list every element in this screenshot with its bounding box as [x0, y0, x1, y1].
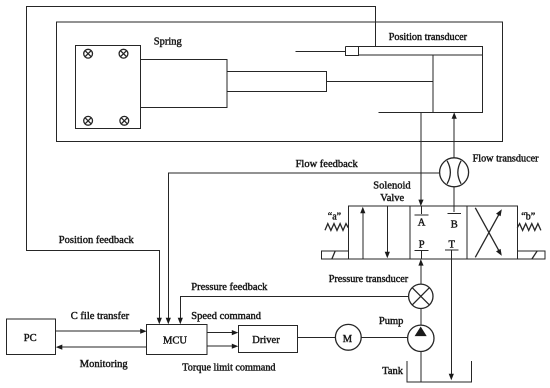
piston rod thin	[326, 80, 433, 82]
pressure transducer	[409, 284, 433, 308]
svg-text:C file transfer: C file transfer	[71, 311, 130, 322]
svg-text:“b”: “b”	[521, 211, 535, 222]
left section down arrow	[386, 206, 388, 254]
port B stub	[447, 206, 461, 213]
flow feedback wire	[168, 173, 439, 321]
svg-text:Flow transducer: Flow transducer	[473, 153, 540, 164]
driver to motor line	[297, 337, 335, 339]
position transducer rod	[345, 46, 482, 55]
spring b	[517, 224, 541, 231]
screw bottom-left	[84, 116, 93, 125]
port P stub	[415, 251, 429, 260]
screw top-right	[119, 49, 128, 58]
piston rod thick	[227, 71, 326, 91]
svg-text:PC: PC	[24, 333, 37, 344]
port T stub	[445, 250, 459, 259]
solenoid valve body middle section	[410, 206, 467, 259]
svg-text:Pressure feedback: Pressure feedback	[191, 282, 268, 293]
left solenoid	[321, 251, 348, 259]
position transducer lead	[295, 50, 345, 52]
flow transducer	[440, 158, 469, 187]
svg-text:Solenoid: Solenoid	[373, 180, 411, 191]
torque limit command arrow	[207, 345, 234, 347]
transducer to pump line	[420, 309, 422, 326]
svg-text:Driver: Driver	[252, 335, 280, 346]
spring a	[325, 224, 348, 231]
machine enclosure	[56, 22, 502, 141]
pressure feedback wire	[180, 296, 408, 321]
svg-text:Tank: Tank	[382, 366, 404, 377]
left section up arrow	[362, 211, 364, 259]
motor M	[335, 324, 361, 350]
screw bottom-right	[120, 116, 129, 125]
position transducer head box	[345, 46, 358, 55]
C file transfer arrow	[56, 330, 143, 332]
tank return line	[450, 259, 452, 377]
svg-text:Pressure transducer: Pressure transducer	[329, 274, 409, 285]
svg-text:Torque limit command: Torque limit command	[182, 362, 275, 373]
mounting plate	[75, 45, 140, 128]
svg-text:MCU: MCU	[163, 335, 187, 346]
tank	[407, 361, 471, 382]
P supply line	[420, 262, 422, 284]
svg-text:Flow feedback: Flow feedback	[296, 159, 359, 170]
svg-text:P: P	[419, 240, 425, 251]
svg-text:M: M	[343, 334, 353, 345]
pump	[408, 325, 434, 351]
cylinder bottom guide line	[378, 111, 433, 113]
MCU box	[147, 324, 207, 354]
right section crossed arrow down	[475, 208, 500, 253]
PC box	[7, 319, 56, 355]
solenoid valve body right section	[467, 206, 518, 259]
right solenoid	[517, 251, 545, 259]
svg-text:“a”: “a”	[328, 211, 341, 222]
driver box	[238, 325, 297, 352]
svg-text:B: B	[451, 219, 458, 230]
screw top-left	[84, 49, 93, 58]
solenoid valve body left section	[348, 206, 410, 259]
port A line	[420, 112, 422, 202]
monitoring arrow	[60, 346, 147, 348]
pump suction line	[420, 352, 422, 382]
spring housing	[140, 59, 227, 107]
svg-text:Valve: Valve	[380, 193, 404, 204]
svg-text:Monitoring: Monitoring	[80, 359, 129, 370]
piston block	[433, 55, 483, 112]
svg-text:Speed command: Speed command	[191, 311, 261, 322]
speed command arrow	[207, 332, 234, 334]
svg-text:Position feedback: Position feedback	[59, 235, 135, 246]
svg-text:Position transducer: Position transducer	[389, 32, 468, 43]
svg-text:T: T	[449, 240, 456, 251]
port A stub	[415, 206, 429, 215]
port B line	[453, 116, 455, 206]
svg-text:Pump: Pump	[379, 316, 404, 327]
position feedback wire loop	[26, 6, 375, 321]
svg-text:A: A	[418, 217, 426, 228]
motor to pump line	[361, 337, 407, 339]
svg-text:Spring: Spring	[154, 36, 183, 47]
right section crossed arrow up	[475, 213, 500, 257]
